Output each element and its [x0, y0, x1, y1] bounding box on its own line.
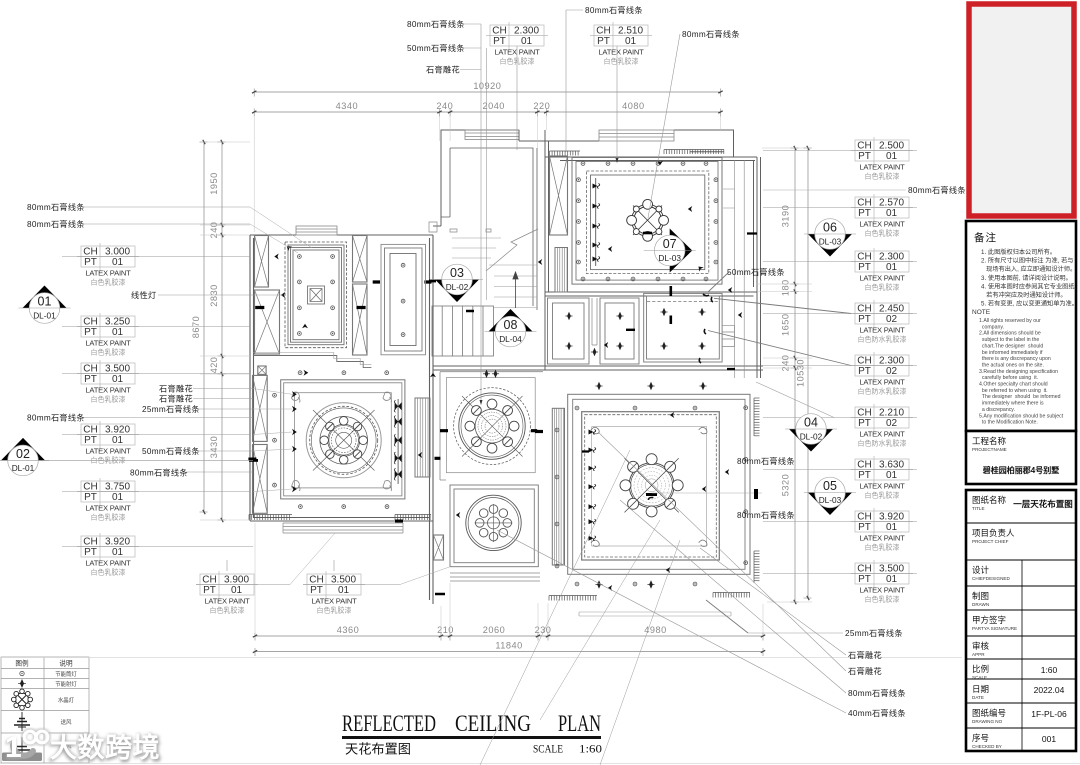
- svg-text:CHIEFDESIGNED: CHIEFDESIGNED: [972, 576, 1010, 581]
- svg-text:PT: PT: [310, 585, 323, 596]
- dimension chain left inner: [209, 140, 226, 522]
- svg-text:80mm石膏线条: 80mm石膏线条: [27, 202, 85, 212]
- dimension chain bottom row: [253, 625, 765, 641]
- leader: [616, 46, 618, 158]
- svg-text:LATEX PAINT: LATEX PAINT: [859, 220, 905, 229]
- corridor B outer: [381, 244, 426, 354]
- room G black wall bar: [754, 489, 758, 499]
- callout 08 DL-04: [485, 309, 537, 347]
- svg-text:DL-02: DL-02: [800, 432, 823, 442]
- dimension chain right inner: [781, 146, 799, 604]
- room G spots row: [595, 382, 706, 589]
- svg-text:PT: PT: [858, 470, 871, 481]
- svg-text:LATEX PAINT: LATEX PAINT: [859, 482, 905, 491]
- notes panel frame 备注: [966, 221, 1076, 431]
- leader vertical2: [486, 48, 488, 300]
- roofline above room C: [519, 130, 761, 378]
- svg-text:TITLE: TITLE: [972, 506, 985, 511]
- svg-text:项目负责人: 项目负责人: [972, 528, 1015, 538]
- notes english text: [979, 318, 1064, 426]
- room D rose satellites: [320, 417, 368, 465]
- room C dashed frame: [587, 171, 709, 274]
- leader diagonal into room A: [250, 207, 312, 248]
- svg-text:4.Other specialty chart should: 4.Other specialty chart should: [979, 382, 1048, 388]
- svg-text:1650: 1650: [781, 314, 791, 336]
- label box top2 CH 2.510: [590, 22, 652, 66]
- svg-text:chart.The designer should: chart.The designer should: [979, 343, 1043, 349]
- svg-text:01: 01: [112, 435, 124, 446]
- callout 02 DL-01: [0, 438, 49, 476]
- svg-text:80mm石膏线条: 80mm石膏线条: [27, 413, 85, 423]
- svg-text:LATEX PAINT: LATEX PAINT: [859, 586, 905, 595]
- project name panel 工程名称: [966, 431, 1076, 484]
- svg-text:80mm石膏线条: 80mm石膏线条: [407, 19, 465, 29]
- svg-text:4080: 4080: [622, 101, 644, 111]
- svg-text:PT: PT: [858, 574, 871, 585]
- svg-text:25mm石膏线条: 25mm石膏线条: [142, 404, 200, 414]
- corridor spots: [591, 348, 598, 356]
- svg-text:4340: 4340: [336, 101, 358, 111]
- svg-text:08: 08: [504, 318, 518, 332]
- room E spots pair: [483, 370, 499, 378]
- porch lines below room G: [579, 612, 731, 616]
- svg-text:01: 01: [886, 262, 898, 273]
- leader: [460, 69, 481, 71]
- svg-text:白色乳胶漆: 白色乳胶漆: [210, 606, 245, 615]
- window east of room H: [722, 160, 744, 378]
- leader: [516, 46, 518, 150]
- svg-text:图纸名称: 图纸名称: [972, 495, 1007, 505]
- svg-text:LATEX PAINT: LATEX PAINT: [85, 504, 131, 513]
- black wall bars room D left: [248, 459, 403, 521]
- svg-text:1:60: 1:60: [579, 744, 602, 756]
- svg-text:5320: 5320: [781, 474, 791, 496]
- svg-text:PT: PT: [858, 208, 871, 219]
- svg-text:07: 07: [663, 237, 677, 251]
- hatched column: [353, 236, 368, 283]
- svg-text:carefully before using it.: carefully before using it.: [979, 375, 1038, 381]
- callout 01 DL-01: [19, 286, 71, 324]
- room A black wall bars: [255, 282, 431, 308]
- svg-text:白色乳胶漆: 白色乳胶漆: [317, 606, 352, 615]
- svg-text:03: 03: [450, 266, 464, 280]
- room F inner: [454, 489, 534, 563]
- svg-text:04: 04: [804, 415, 818, 429]
- svg-text:设计: 设计: [972, 565, 990, 575]
- extension lines top: [254, 116, 720, 232]
- svg-text:PROJECT CHIEF: PROJECT CHIEF: [972, 539, 1009, 544]
- label box L4 CH 3.920: [62, 421, 250, 465]
- svg-text:80mm石膏线条: 80mm石膏线条: [682, 29, 740, 39]
- svg-text:PT: PT: [84, 374, 97, 385]
- svg-text:LATEX PAINT: LATEX PAINT: [85, 559, 131, 568]
- leader: [463, 47, 481, 49]
- room A frame2: [288, 245, 344, 345]
- sq2: [310, 289, 322, 302]
- svg-text:240: 240: [781, 355, 791, 372]
- svg-text:一层天花布置图: 一层天花布置图: [1013, 499, 1073, 509]
- leader vertical3: [565, 10, 567, 152]
- svg-text:3.Read the designing specifica: 3.Read the designing specification: [979, 369, 1058, 375]
- svg-text:石膏雕花: 石膏雕花: [848, 650, 882, 660]
- callout 03 DL-02: [431, 264, 483, 302]
- svg-text:01: 01: [886, 522, 898, 533]
- svg-text:PT: PT: [84, 327, 97, 338]
- room E black wall bars: [435, 431, 538, 459]
- svg-text:水晶灯: 水晶灯: [58, 696, 75, 704]
- room D wall washers: [394, 400, 401, 480]
- room G frame3: [582, 412, 720, 560]
- dimension chain bottom total 11840: [253, 641, 765, 657]
- leader diagonal: [648, 34, 680, 218]
- svg-text:230: 230: [535, 625, 552, 635]
- room G corner ornaments: [591, 427, 599, 433]
- porch below room F: [450, 573, 540, 581]
- svg-text:02: 02: [886, 366, 898, 377]
- dimension chain left outer 8670: [191, 140, 208, 514]
- room H dashed: [647, 301, 719, 303]
- svg-text:CHECKED BY: CHECKED BY: [972, 744, 1002, 749]
- svg-text:PT: PT: [84, 492, 97, 503]
- svg-text:02: 02: [16, 447, 30, 461]
- svg-text:PT: PT: [858, 314, 871, 325]
- leader: [193, 398, 253, 400]
- svg-text:审核: 审核: [972, 641, 990, 651]
- svg-text:4. 使用本图时应参阅其它专业图纸,: 4. 使用本图时应参阅其它专业图纸,: [981, 282, 1077, 290]
- label box L6 CH 3.920: [62, 533, 253, 577]
- misc arrow marks: [274, 161, 742, 591]
- svg-text:40mm石膏线条: 40mm石膏线条: [848, 708, 906, 718]
- svg-text:DL-01: DL-01: [33, 311, 56, 321]
- svg-text:PT: PT: [84, 257, 97, 268]
- svg-text:3190: 3190: [781, 205, 791, 227]
- svg-text:制图: 制图: [972, 591, 989, 601]
- svg-text:01: 01: [112, 327, 124, 338]
- room C chandelier: [627, 199, 669, 241]
- svg-text:2830: 2830: [209, 284, 219, 306]
- leader diagonal 25mm: [706, 600, 748, 633]
- svg-text:80mm石膏线条: 80mm石膏线条: [27, 219, 85, 229]
- svg-text:白色乳胶漆: 白色乳胶漆: [91, 278, 126, 287]
- leader diagonal2: [540, 520, 660, 720]
- corridor leader arrow: [304, 370, 309, 376]
- batten bottom-left1: [249, 515, 292, 521]
- svg-text:日期: 日期: [972, 684, 989, 694]
- room G downlights: [555, 406, 748, 586]
- svg-text:420: 420: [209, 357, 219, 374]
- room G inner: [592, 427, 707, 546]
- svg-text:石膏雕花: 石膏雕花: [848, 666, 882, 676]
- label box R9 CH 3.500: [763, 560, 917, 604]
- svg-text:180: 180: [781, 279, 791, 296]
- svg-text:LATEX PAINT: LATEX PAINT: [85, 447, 131, 456]
- svg-text:50mm石膏线条: 50mm石膏线条: [727, 267, 785, 277]
- label box L5 CH 3.750: [62, 478, 250, 522]
- hatched column: [353, 284, 368, 355]
- bay window room C: [599, 130, 674, 141]
- room C inner frame: [591, 175, 705, 270]
- dimension chain top row: [252, 101, 723, 117]
- svg-text:220: 220: [533, 101, 550, 111]
- leader B2 diagonal: [400, 566, 452, 585]
- room G outer: [568, 394, 750, 574]
- notes chinese text: [981, 248, 1078, 308]
- svg-text:石膏雕花: 石膏雕花: [426, 65, 460, 75]
- svg-text:PT: PT: [858, 366, 871, 377]
- title table panel: [966, 490, 1076, 751]
- svg-text:80mm石膏线条: 80mm石膏线条: [848, 688, 906, 698]
- room H outer: [644, 293, 722, 362]
- svg-text:4980: 4980: [644, 625, 666, 635]
- svg-text:LATEX PAINT: LATEX PAINT: [311, 597, 357, 606]
- room E ceiling rose: [454, 388, 531, 465]
- room D vent: [415, 398, 430, 477]
- corridor dots above room D: [298, 371, 388, 375]
- svg-text:甲方签字: 甲方签字: [972, 615, 1006, 625]
- label box R2 CH 2.570: [763, 194, 917, 238]
- label box R1 CH 2.500: [763, 137, 917, 181]
- svg-text:白色乳胶漆: 白色乳胶漆: [91, 456, 126, 465]
- svg-text:to the Modification Note.: to the Modification Note.: [979, 420, 1038, 426]
- svg-text:4360: 4360: [337, 625, 359, 635]
- stair railing band: [432, 306, 494, 356]
- corridor B inner: [390, 254, 416, 346]
- svg-text:a discrepancy.: a discrepancy.: [979, 407, 1015, 413]
- svg-text:PT: PT: [84, 435, 97, 446]
- room D wall dots: [273, 393, 277, 487]
- svg-text:白色乳胶漆: 白色乳胶漆: [865, 491, 900, 500]
- leader: [158, 294, 283, 296]
- svg-text:LATEX PAINT: LATEX PAINT: [85, 386, 131, 395]
- svg-text:现场有出入, 应立即通知设计师。: 现场有出入, 应立即通知设计师。: [981, 265, 1076, 273]
- svg-text:DL-01: DL-01: [12, 463, 35, 473]
- corridor B mid: [385, 248, 423, 351]
- extension lines left: [200, 142, 250, 520]
- label box R3 CH 2.300: [763, 248, 917, 292]
- svg-text:PARTYA SIGNATURE: PARTYA SIGNATURE: [972, 626, 1017, 631]
- svg-text:LATEX PAINT: LATEX PAINT: [85, 339, 131, 348]
- svg-text:白色乳胶漆: 白色乳胶漆: [865, 283, 900, 292]
- leader: [193, 388, 253, 390]
- svg-text:PT: PT: [203, 585, 216, 596]
- svg-text:2060: 2060: [483, 625, 505, 635]
- leader: [463, 23, 481, 25]
- callout 04 DL-02: [785, 414, 837, 452]
- leader: [566, 9, 583, 11]
- black tick end of 02 leader: [249, 459, 258, 462]
- hatched column: [550, 156, 568, 235]
- title table rows: [966, 495, 1076, 751]
- svg-text:石膏雕花: 石膏雕花: [159, 394, 193, 404]
- svg-text:LATEX PAINT: LATEX PAINT: [859, 430, 905, 439]
- sr2 outer: [600, 298, 639, 364]
- svg-text:LATEX PAINT: LATEX PAINT: [859, 378, 905, 387]
- leader 02 shelf: [38, 459, 253, 461]
- svg-text:01: 01: [112, 492, 124, 503]
- svg-text:80mm石膏线条: 80mm石膏线条: [130, 468, 188, 478]
- hatched column: [255, 290, 280, 354]
- svg-text:PT: PT: [493, 36, 506, 47]
- svg-text:05: 05: [823, 479, 837, 493]
- sr1 outer: [548, 298, 590, 364]
- legend table 图例: [1, 657, 89, 763]
- svg-text:PT: PT: [858, 522, 871, 533]
- batten bottom-left2: [395, 515, 431, 521]
- leader: [198, 408, 253, 410]
- svg-text:5. 若有变更, 应以变更通知单为准。: 5. 若有变更, 应以变更通知单为准。: [981, 300, 1078, 308]
- black tick sr2 edge: [626, 329, 635, 331]
- leader diagonal: [497, 530, 846, 713]
- black tick left of 03: [429, 280, 436, 283]
- corridor walls middle: [433, 292, 763, 370]
- svg-text:LATEX PAINT: LATEX PAINT: [859, 326, 905, 335]
- svg-text:碧桂园柏丽郡4号别墅: 碧桂园柏丽郡4号别墅: [982, 465, 1059, 475]
- svg-text:PT: PT: [858, 151, 871, 162]
- svg-text:白色防水乳胶漆: 白色防水乳胶漆: [858, 439, 907, 448]
- svg-text:比例: 比例: [972, 664, 989, 674]
- black bar left of room G: [535, 430, 543, 433]
- room A dashed frame: [285, 242, 347, 348]
- room D corner ornaments: [292, 392, 301, 402]
- room C downlights ring: [577, 162, 718, 281]
- svg-text:06: 06: [823, 220, 837, 234]
- svg-text:LATEX PAINT: LATEX PAINT: [204, 597, 250, 606]
- label box L2 CH 3.250: [62, 313, 250, 357]
- small room 2 spots: [616, 312, 623, 350]
- room G wall washers: [589, 430, 596, 541]
- svg-text:DRAWING NO: DRAWING NO: [972, 719, 1003, 724]
- svg-text:2022.04: 2022.04: [1034, 685, 1065, 695]
- door stubs corridor: [429, 222, 491, 232]
- small room 1 spots: [565, 312, 572, 350]
- svg-text:be informed immediately if: be informed immediately if: [979, 350, 1043, 356]
- hatched column: [255, 236, 269, 288]
- leader: [83, 223, 250, 225]
- svg-text:1F-PL-06: 1F-PL-06: [1031, 709, 1067, 719]
- svg-text:若有冲突应及时通知设计师。: 若有冲突应及时通知设计师。: [981, 291, 1067, 299]
- svg-text:be referred to when using it.: be referred to when using it.: [979, 388, 1048, 394]
- stair steps: [452, 229, 538, 308]
- sr2 inner: [605, 303, 634, 359]
- room C wall washers: [593, 184, 600, 262]
- room D frame2: [284, 383, 402, 496]
- hatched column: [258, 366, 266, 374]
- svg-text:subject to the label in the: subject to the label in the: [979, 337, 1039, 343]
- svg-text:节能筒灯: 节能筒灯: [55, 670, 77, 678]
- batten right wall bottom: [754, 551, 760, 583]
- leader: [83, 417, 253, 419]
- svg-text:1950: 1950: [209, 172, 219, 194]
- svg-text:SCALE: SCALE: [533, 744, 563, 756]
- watermark logo: [2, 730, 162, 765]
- svg-text:01: 01: [112, 257, 124, 268]
- svg-text:01: 01: [38, 294, 52, 308]
- svg-text:10920: 10920: [473, 81, 501, 91]
- room E frame: [440, 372, 543, 480]
- leader: [83, 206, 250, 208]
- svg-text:白色乳胶漆: 白色乳胶漆: [865, 172, 900, 181]
- svg-text:图纸编号: 图纸编号: [972, 708, 1006, 718]
- washer track D: [397, 399, 399, 484]
- svg-text:1: 1: [5, 731, 22, 764]
- svg-text:LATEX PAINT: LATEX PAINT: [859, 274, 905, 283]
- svg-text:01: 01: [112, 547, 124, 558]
- svg-text:DL-02: DL-02: [446, 282, 469, 292]
- svg-text:2040: 2040: [482, 101, 504, 111]
- leader: [226, 560, 228, 571]
- room A frame4: [293, 250, 339, 340]
- dimension chain top total 10920: [252, 81, 723, 97]
- svg-text:图例: 图例: [15, 659, 29, 668]
- room F outer: [450, 485, 538, 567]
- svg-text:the actual ones on the site.: the actual ones on the site.: [979, 362, 1044, 368]
- svg-text:5.Any modification should be s: 5.Any modification should be subject: [979, 413, 1064, 419]
- svg-text:01: 01: [886, 470, 898, 481]
- svg-text:80mm石膏线条: 80mm石膏线条: [737, 456, 795, 466]
- svg-text:线性灯: 线性灯: [131, 290, 156, 300]
- room G curtain strip: [552, 408, 564, 565]
- svg-text:PT: PT: [858, 262, 871, 273]
- room D downlights below: [299, 505, 389, 509]
- bay window stair: [465, 130, 519, 140]
- leader: [198, 450, 253, 452]
- label box L3 CH 3.500: [62, 360, 250, 404]
- batten bottom G2: [713, 593, 750, 598]
- label box B1 CH 3.900: [196, 571, 290, 615]
- label box L1 CH 3.000: [62, 243, 250, 287]
- svg-text:白色乳胶漆: 白色乳胶漆: [604, 57, 639, 66]
- svg-text:白色乳胶漆: 白色乳胶漆: [865, 543, 900, 552]
- svg-text:LATEX PAINT: LATEX PAINT: [859, 163, 905, 172]
- svg-text:001: 001: [1042, 734, 1056, 744]
- svg-text:白色乳胶漆: 白色乳胶漆: [91, 395, 126, 404]
- svg-text:白色防水乳胶漆: 白色防水乳胶漆: [858, 387, 907, 396]
- leader to CH2210: [756, 382, 834, 418]
- label box R7 CH 3.630: [763, 456, 917, 500]
- hook marks room H: [699, 294, 713, 363]
- batten right wall top: [754, 398, 760, 436]
- leader: [186, 471, 253, 473]
- hatched column: [253, 375, 268, 441]
- hatched column room F left: [434, 535, 444, 560]
- svg-text:80mm石膏线条: 80mm石膏线条: [585, 5, 643, 15]
- svg-text:PT: PT: [858, 418, 871, 429]
- room D outer: [281, 380, 405, 499]
- room D ceiling rose: [306, 403, 381, 478]
- svg-text:大数跨境: 大数跨境: [50, 733, 160, 763]
- svg-text:The designer should be infor: The designer should be informed: [979, 394, 1061, 400]
- room C frame2: [576, 162, 718, 281]
- black wall tick marks: [435, 234, 757, 595]
- leader diagonal: [620, 500, 846, 693]
- sr1 inner: [553, 303, 585, 359]
- leader extensions into room D: [253, 389, 292, 492]
- svg-text:白色乳胶漆: 白色乳胶漆: [865, 595, 900, 604]
- exterior wall left block: [250, 235, 433, 604]
- bay window room A: [296, 226, 337, 235]
- svg-text:01: 01: [625, 36, 637, 47]
- svg-text:01: 01: [521, 36, 533, 47]
- svg-text:工程名称: 工程名称: [972, 436, 1007, 446]
- porch lines below room D: [283, 523, 403, 533]
- svg-text:NOTE: NOTE: [972, 309, 991, 316]
- shaft between small rooms: [592, 298, 597, 345]
- label box R6 CH 2.210: [763, 404, 917, 448]
- svg-text:PLAN: PLAN: [558, 711, 601, 737]
- svg-text:PROJECTNAME: PROJECTNAME: [972, 447, 1007, 452]
- svg-text:白色乳胶漆: 白色乳胶漆: [865, 229, 900, 238]
- sq: [308, 286, 325, 304]
